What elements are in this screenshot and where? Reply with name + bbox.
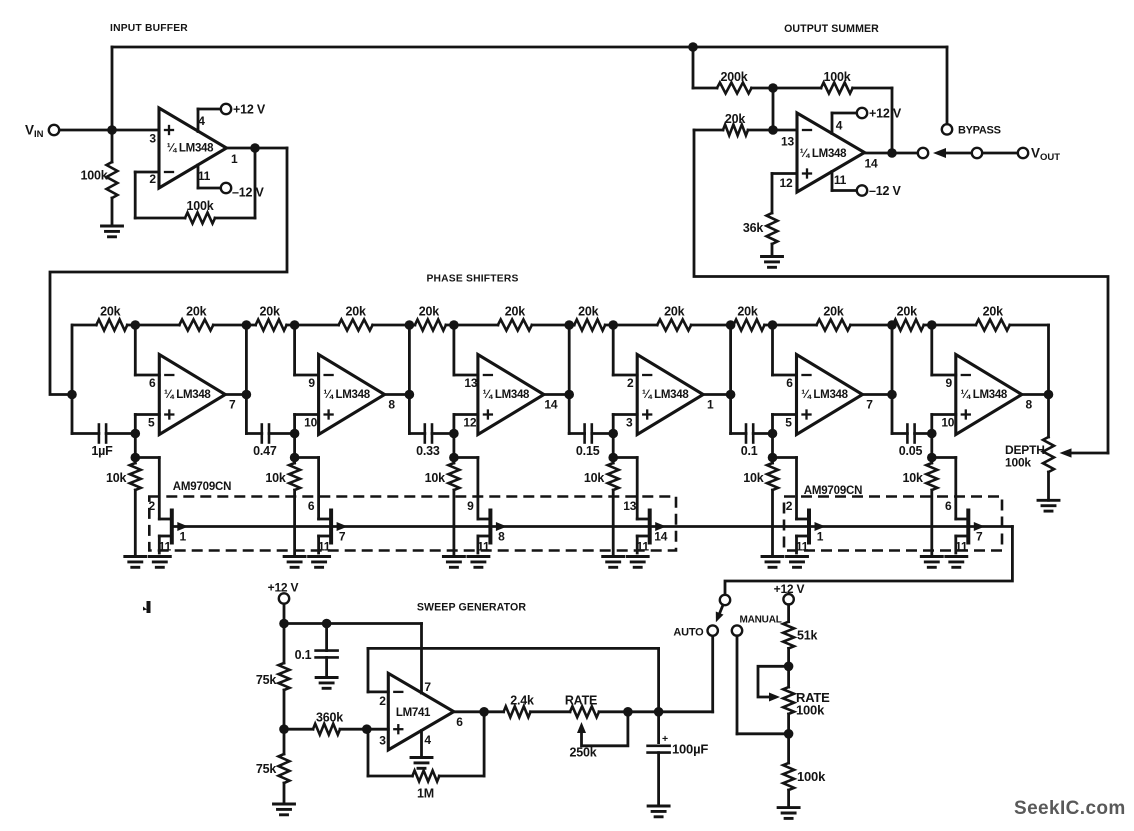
node A stage4 — [608, 320, 618, 330]
wire U1 output — [227, 147, 288, 150]
resistor 10k stage3 — [448, 458, 459, 557]
wire pin 11 to -12V — [198, 165, 221, 188]
svg-text:12: 12 — [780, 176, 793, 190]
svg-text:100k: 100k — [186, 199, 213, 213]
transistor JFET Q3 channel — [488, 511, 492, 543]
wire output vertical stage2 — [408, 325, 411, 434]
svg-text:75k: 75k — [256, 673, 277, 687]
svg-text:¼ LM348: ¼ LM348 — [801, 389, 848, 401]
capacitor stage4 — [569, 425, 613, 443]
svg-text:13: 13 — [781, 135, 794, 149]
svg-text:0.33: 0.33 — [416, 444, 440, 458]
wire top bus drop to 200k — [692, 47, 695, 88]
pin label minus stage1 — [149, 376, 156, 390]
label +12V U1 — [233, 103, 266, 117]
node output top stage5 — [887, 320, 897, 330]
node cap stage2 — [290, 429, 300, 439]
label U3 1/4 LM348 — [164, 389, 211, 401]
wire BYPASS drop — [946, 47, 949, 124]
transistor JFET Q2 gate arrow — [337, 522, 348, 531]
wire plus input stage6 — [932, 415, 956, 434]
svg-text:3: 3 — [626, 416, 633, 430]
label 20k series stage2 — [259, 305, 280, 319]
wire drain JFET stage3 — [454, 458, 491, 520]
pin label JFET 11 stage5 — [796, 540, 809, 554]
wire top bus phase shifters with resistors — [73, 320, 1049, 331]
label RATE 100k value — [796, 703, 825, 718]
label capacitor stage2 — [253, 444, 277, 458]
node lower stage6 — [927, 453, 937, 463]
ground 10k stage1 — [125, 557, 146, 568]
label AM9709CN left — [173, 481, 231, 493]
pin 1 label U1 — [231, 152, 238, 166]
ground 100uF — [648, 806, 669, 817]
label 20k feedback stage6 — [983, 305, 1004, 319]
pin label minus stage4 — [627, 376, 634, 390]
label 10k stage3 — [425, 471, 446, 485]
capacitor stage6 — [892, 425, 932, 443]
pin label JFET right stage6 — [976, 530, 983, 544]
svg-text:20k: 20k — [578, 305, 599, 319]
dashed box AM9709CN right — [784, 497, 1002, 551]
label 20k feedback stage3 — [505, 305, 526, 319]
op-amp U6 quarter LM348 stage4 — [637, 355, 703, 435]
svg-text:6: 6 — [149, 376, 156, 390]
wire +12V down — [283, 604, 286, 624]
wire output vertical stage1 — [245, 325, 248, 434]
switch pole terminal — [720, 595, 730, 605]
wire source JFET stage6 — [956, 536, 969, 553]
svg-text:200k: 200k — [720, 70, 747, 84]
wire drain JFET stage4 — [613, 458, 650, 520]
label 75k lower — [256, 762, 277, 776]
pin 4 label U1 — [198, 114, 205, 128]
svg-text:10k: 10k — [584, 471, 605, 485]
pin label out stage2 — [388, 398, 395, 412]
wire U1 output to phase shifter input — [50, 148, 287, 395]
wire output vertical stage3 — [568, 325, 571, 434]
wire drain JFET stage5 — [773, 458, 810, 520]
svg-text:20k: 20k — [419, 305, 440, 319]
wire pin 11 to -12V U2 — [832, 172, 857, 191]
terminal VIN — [25, 123, 59, 141]
wire RATE 100k wiper — [758, 666, 789, 701]
ground 10k stage3 — [443, 557, 464, 568]
node RATE bottom — [784, 729, 794, 739]
pin label JFET right stage3 — [498, 530, 505, 544]
pin label JFET top stage1 — [149, 499, 156, 513]
svg-text:5: 5 — [785, 416, 792, 430]
svg-text:LM741: LM741 — [396, 707, 431, 719]
resistor 36k — [767, 174, 778, 257]
watermark SeekIC.com — [1014, 798, 1126, 819]
wire cap to lower node stage4 — [612, 434, 615, 458]
pin label minus stage2 — [308, 376, 315, 390]
svg-text:20k: 20k — [725, 112, 746, 126]
svg-text:11: 11 — [198, 169, 211, 183]
label 20k series stage6 — [897, 305, 918, 319]
resistor 2.4k — [504, 706, 570, 717]
resistor 10k stage4 — [608, 458, 619, 557]
svg-text:BYPASS: BYPASS — [958, 125, 1001, 137]
svg-text:1: 1 — [231, 152, 238, 166]
svg-text:100k: 100k — [797, 769, 826, 784]
wire output stage6 — [1022, 393, 1049, 396]
svg-text:20k: 20k — [823, 305, 844, 319]
label 20k feedback stage4 — [664, 305, 685, 319]
label 250k — [569, 746, 596, 760]
label LM741 — [396, 707, 431, 719]
wire source JFET stage1 — [159, 536, 172, 553]
wire vout link — [983, 152, 1018, 155]
svg-text:SeekIC.com: SeekIC.com — [1014, 798, 1126, 819]
label 75k upper — [256, 673, 277, 687]
potentiometer RATE 100k — [783, 666, 794, 734]
resistor 100k input — [107, 130, 118, 226]
wire output stage2 — [385, 393, 410, 396]
wire minus input LM741 feedback — [368, 648, 659, 711]
ground 36k — [762, 257, 783, 268]
wire vertical to top bus — [111, 47, 114, 130]
wire 250k wiper — [577, 712, 628, 746]
svg-text:+12 V: +12 V — [869, 107, 902, 121]
node output top stage3 — [564, 320, 574, 330]
label +12V U2 — [869, 107, 902, 121]
ground DEPTH — [1038, 500, 1059, 511]
terminal AUTO — [708, 625, 718, 635]
node A stage6 — [927, 320, 937, 330]
wire U1 feedback minus input — [135, 148, 255, 218]
section title PHASE SHIFTERS — [426, 274, 518, 285]
section title OUTPUT SUMMER — [784, 23, 879, 35]
label 100k summer — [823, 70, 850, 84]
transistor JFET Q4 channel — [648, 511, 652, 543]
label -12V U1 — [232, 186, 265, 200]
svg-text:–12 V: –12 V — [232, 186, 265, 200]
label U5 1/4 LM348 — [483, 389, 530, 401]
svg-text:1µF: 1µF — [91, 444, 113, 458]
transistor JFET Q6 channel — [966, 511, 970, 543]
wire plus input stage5 — [773, 415, 797, 434]
label 360k — [316, 711, 343, 725]
svg-text:14: 14 — [865, 157, 878, 171]
capacitor stage1 — [72, 425, 135, 443]
pin label out stage1 — [229, 398, 236, 412]
node sweep output junction — [654, 707, 664, 717]
op-amp U3 quarter LM348 stage1 — [159, 355, 225, 435]
wire source JFET stage2 — [319, 536, 332, 553]
svg-text:+: + — [662, 733, 668, 745]
node lower stage4 — [608, 453, 618, 463]
op-amp U5 quarter LM348 stage3 — [478, 355, 544, 435]
ground JFET source stage3 — [468, 557, 489, 568]
svg-text:100k: 100k — [796, 703, 825, 718]
svg-text:2.4k: 2.4k — [510, 694, 534, 708]
label 2.4k — [510, 694, 534, 708]
ground 0.1 cap — [316, 678, 337, 689]
pin label out stage5 — [866, 398, 873, 412]
resistor 100k summer feedback — [773, 83, 892, 94]
svg-text:12: 12 — [463, 416, 476, 430]
wire +12V rail to pin7 — [284, 624, 422, 694]
svg-text:0.15: 0.15 — [576, 444, 600, 458]
label 20k feedback stage2 — [345, 305, 366, 319]
arrow to output jack — [933, 148, 972, 158]
label capacitor stage6 — [899, 444, 923, 458]
svg-text:36k: 36k — [743, 221, 764, 235]
pin 7 label LM741 — [424, 680, 431, 694]
wire plus input stage2 — [295, 415, 319, 434]
label 20k series stage4 — [578, 305, 599, 319]
pin 11 label U1 — [198, 169, 211, 183]
wire drain JFET stage2 — [295, 458, 332, 520]
node A stage5 — [768, 320, 778, 330]
node cap stage4 — [608, 429, 618, 439]
wire LM741 output — [454, 710, 504, 713]
capacitor stage5 — [731, 425, 773, 443]
svg-text:20k: 20k — [345, 305, 366, 319]
svg-text:10: 10 — [941, 416, 954, 430]
terminal -12V U2 — [857, 185, 867, 195]
wire cap to lower node stage1 — [134, 434, 137, 458]
pin label plus stage3 — [463, 416, 476, 430]
svg-text:INPUT BUFFER: INPUT BUFFER — [110, 23, 188, 34]
pin label JFET 11 stage6 — [955, 540, 968, 554]
wire VIN to op-amp U1 + input — [60, 129, 160, 132]
pin label out stage3 — [544, 398, 557, 412]
svg-text:2: 2 — [379, 694, 386, 708]
pin 2 label U1 — [149, 172, 156, 186]
wire output stage5 — [863, 393, 893, 396]
node output top stage4 — [726, 320, 736, 330]
label MANUAL — [740, 615, 782, 626]
svg-text:2: 2 — [627, 376, 634, 390]
svg-text:7: 7 — [976, 530, 983, 544]
node cap stage1 — [131, 429, 141, 439]
node 20k junction — [768, 125, 778, 135]
svg-text:10k: 10k — [425, 471, 446, 485]
label 20k series stage1 — [100, 305, 121, 319]
svg-text:RATE: RATE — [565, 694, 597, 708]
node cap stage5 — [768, 429, 778, 439]
label AUTO — [673, 627, 704, 639]
pin label out stage6 — [1026, 398, 1033, 412]
node 250k right — [623, 707, 633, 717]
transistor JFET Q3 gate arrow — [496, 522, 507, 531]
transistor JFET Q4 gate arrow — [655, 522, 666, 531]
wire source JFET stage5 — [797, 536, 810, 553]
node 200k-100k junction — [768, 83, 778, 93]
label U2 1/4 LM348 — [800, 148, 847, 160]
label capacitor stage1 — [91, 444, 113, 458]
pin 14 label U2 — [865, 157, 878, 171]
label capacitor stage3 — [416, 444, 440, 458]
svg-text:20k: 20k — [100, 305, 121, 319]
svg-text:0.1: 0.1 — [295, 648, 312, 662]
svg-text:1: 1 — [817, 530, 824, 544]
ground input 100k — [102, 226, 123, 237]
wire source JFET stage3 — [478, 536, 491, 553]
ground 10k stage4 — [603, 557, 624, 568]
terminal VOUT — [1018, 148, 1028, 158]
terminal -12V U1 — [221, 183, 231, 193]
pin label minus stage5 — [786, 376, 793, 390]
pin label plus stage2 — [304, 416, 317, 430]
wire junction 200k to 20k row — [772, 88, 775, 130]
pin label plus stage6 — [941, 416, 954, 430]
svg-text:8: 8 — [498, 530, 505, 544]
pin 6 label LM741 — [456, 715, 463, 729]
svg-text:MANUAL: MANUAL — [740, 615, 782, 626]
svg-text:20k: 20k — [897, 305, 918, 319]
pin label JFET right stage2 — [339, 530, 346, 544]
svg-text:360k: 360k — [316, 711, 343, 725]
transistor JFET Q6 gate arrow — [974, 522, 985, 531]
svg-text:6: 6 — [786, 376, 793, 390]
op-amp U2 quarter LM348 — [797, 113, 865, 192]
label U1 1/4 LM348 — [167, 143, 214, 155]
wire output stage3 — [544, 393, 569, 396]
svg-text:14: 14 — [544, 398, 557, 412]
svg-text:10k: 10k — [743, 471, 764, 485]
svg-text:20k: 20k — [505, 305, 526, 319]
label 100k bottom — [797, 769, 826, 784]
resistor 1M — [368, 712, 484, 782]
svg-text:51k: 51k — [797, 629, 818, 643]
svg-text:20k: 20k — [259, 305, 280, 319]
svg-text:2: 2 — [786, 499, 793, 513]
wire drain JFET stage1 — [135, 458, 172, 520]
svg-text:4: 4 — [424, 733, 431, 747]
svg-text:10: 10 — [304, 416, 317, 430]
wire plus input stage1 — [135, 415, 159, 434]
resistor 100k bottom — [783, 734, 794, 808]
wire pin 4 to +12V U2 — [832, 113, 857, 134]
potentiometer DEPTH 100k — [1043, 395, 1054, 501]
label 20k series stage5 — [737, 305, 758, 319]
wire JFET gate control line — [172, 525, 1013, 528]
label 20k feedback stage5 — [823, 305, 844, 319]
wire plus input stage4 — [613, 415, 637, 434]
node A stage3 — [449, 320, 459, 330]
label +12V sweep — [268, 581, 299, 595]
label 0.1 — [295, 648, 312, 662]
pin label JFET 11 stage4 — [637, 540, 650, 554]
svg-text:–12 V: –12 V — [869, 184, 902, 198]
label 20k feedback stage1 — [186, 305, 207, 319]
svg-text:7: 7 — [866, 398, 873, 412]
wire minus input stage3 — [454, 325, 478, 375]
node lower stage3 — [449, 453, 459, 463]
op-amp U9 LM741 — [388, 673, 454, 750]
node lower stage1 — [131, 453, 141, 463]
pin label JFET right stage4 — [654, 530, 667, 544]
ground JFET source stage4 — [627, 557, 648, 568]
svg-text:13: 13 — [623, 499, 636, 513]
pin label JFET 11 stage1 — [159, 540, 172, 554]
label U4 1/4 LM348 — [323, 389, 370, 401]
capacitor stage2 — [246, 425, 294, 443]
label RATE 250k — [565, 694, 597, 708]
resistor 10k stage2 — [289, 458, 300, 557]
wire AUTO contact to junction — [659, 636, 713, 712]
wire minus input stage6 — [932, 325, 956, 375]
label 10k stage1 — [106, 471, 127, 485]
wire source JFET stage4 — [637, 536, 650, 553]
op-amp U1 quarter LM348 — [159, 108, 227, 188]
pin label out stage4 — [707, 398, 714, 412]
svg-text:+12 V: +12 V — [233, 103, 266, 117]
label 100k feedback U1 — [186, 199, 213, 213]
pin label JFET top stage2 — [308, 499, 315, 513]
label U8 1/4 LM348 — [961, 389, 1008, 401]
resistor 10k stage1 — [130, 458, 141, 557]
svg-text:7: 7 — [339, 530, 346, 544]
label U7 1/4 LM348 — [801, 389, 848, 401]
label 10k stage4 — [584, 471, 605, 485]
svg-text:250k: 250k — [569, 746, 596, 760]
wire pin 4 to +12V — [198, 109, 221, 132]
resistor 51k — [783, 605, 794, 667]
terminal vout link 1 — [972, 148, 982, 158]
svg-text:PHASE SHIFTERS: PHASE SHIFTERS — [426, 274, 518, 285]
node U2 output — [887, 148, 897, 158]
node +12V junction — [279, 619, 289, 629]
pin label JFET right stage1 — [180, 530, 187, 544]
wire summer input from phase shifter — [694, 130, 1108, 453]
transistor JFET Q1 gate arrow — [177, 522, 188, 531]
svg-text:100k: 100k — [80, 169, 107, 183]
label DEPTH — [1005, 443, 1045, 457]
svg-text:100k: 100k — [1005, 456, 1031, 470]
svg-text:AM9709CN: AM9709CN — [173, 481, 231, 493]
wire 100k to output node — [891, 88, 894, 153]
switch arm with arrow — [716, 605, 724, 622]
svg-text:OUTPUT SUMMER: OUTPUT SUMMER — [784, 23, 879, 35]
wire cap to lower node stage5 — [771, 434, 774, 458]
svg-text:7: 7 — [424, 680, 431, 694]
pin label JFET 11 stage3 — [477, 540, 490, 554]
label VOUT — [1031, 146, 1060, 164]
pin label JFET right stage5 — [817, 530, 824, 544]
pin label minus stage6 — [946, 376, 953, 390]
node lower stage2 — [290, 453, 300, 463]
wire control line to switch — [725, 527, 1012, 596]
wire minus input stage4 — [613, 325, 637, 375]
node plus input LM741 — [362, 724, 372, 734]
node output top stage2 — [405, 320, 415, 330]
svg-text:1M: 1M — [417, 787, 434, 801]
pin 13 label U2 — [781, 135, 794, 149]
node output top stage1 — [242, 320, 252, 330]
label capacitor stage5 — [741, 444, 758, 458]
svg-text:3: 3 — [149, 132, 156, 146]
svg-text:20k: 20k — [664, 305, 685, 319]
svg-text:8: 8 — [1026, 398, 1033, 412]
svg-text:AUTO: AUTO — [673, 627, 704, 639]
terminal +12V rate — [783, 594, 793, 604]
svg-text:9: 9 — [467, 499, 474, 513]
resistor 10k stage5 — [767, 458, 778, 557]
label 10k stage2 — [265, 471, 286, 485]
label U6 1/4 LM348 — [642, 389, 689, 401]
pin 4 label LM741 — [424, 733, 431, 747]
svg-text:¼ LM348: ¼ LM348 — [961, 389, 1008, 401]
svg-text:100µF: 100µF — [672, 742, 708, 757]
ground JFET source stage1 — [149, 557, 170, 568]
wire cap to lower node stage6 — [930, 434, 933, 458]
wire output stage4 — [703, 393, 730, 396]
